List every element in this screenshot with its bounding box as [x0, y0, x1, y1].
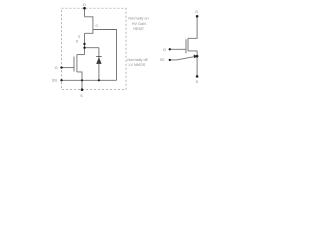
svg-text:S: S — [80, 93, 83, 98]
svg-text:Normally off: Normally off — [127, 58, 148, 62]
svg-text:HEMT: HEMT — [133, 27, 144, 31]
svg-text:SS: SS — [52, 78, 58, 83]
svg-text:G: G — [95, 24, 98, 28]
svg-text:Normally on: Normally on — [128, 17, 148, 21]
svg-text:LV NMOS: LV NMOS — [128, 63, 145, 67]
svg-text:G: G — [55, 65, 58, 70]
svg-text:S: S — [195, 79, 198, 84]
svg-text:G: G — [163, 47, 166, 52]
svg-text:SS: SS — [160, 58, 165, 62]
svg-text:HV GaN: HV GaN — [132, 22, 146, 26]
svg-text:D: D — [83, 2, 86, 7]
svg-text:D: D — [195, 9, 198, 14]
